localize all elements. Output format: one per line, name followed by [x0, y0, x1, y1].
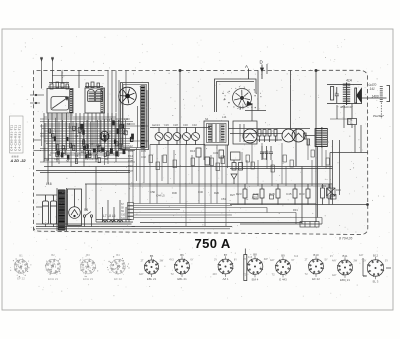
svg-text:8Y: 8Y — [234, 259, 237, 262]
svg-text:SY: SY — [324, 259, 328, 262]
loudspeaker with output transformer — [327, 85, 362, 104]
wire rf lower links — [44, 115, 116, 117]
svg-text:2T: 2T — [305, 259, 308, 262]
wire vertical bus x316 — [315, 69, 317, 222]
interstage transformer T2 — [316, 128, 322, 130]
svg-text:4×3: 4×3 — [248, 256, 253, 259]
svg-text:B1: B1 — [19, 254, 23, 258]
svg-text:B4: B4 — [116, 253, 120, 257]
wire vertical bus x290 — [290, 71, 292, 130]
wire y119 right — [330, 118, 352, 120]
wire pair y168 right — [230, 168, 333, 170]
tube socket diagram B1 — [10, 254, 31, 281]
wire pair y170 — [36, 171, 130, 173]
node A label line — [245, 64, 249, 79]
wire bottom buses — [132, 223, 323, 227]
trimmer labels — [155, 123, 197, 127]
scan speckle inside boundary — [38, 72, 366, 231]
component value labels mesh — [57, 119, 113, 161]
svg-text:4AY: 4AY — [213, 273, 218, 276]
svg-text:1400: 1400 — [372, 95, 379, 99]
tone corrector crossed box — [321, 184, 341, 201]
wire osc outputs — [245, 71, 266, 122]
svg-text:3Y: 3Y — [363, 259, 366, 262]
switch contacts above coil box 2 — [85, 82, 103, 88]
svg-text:4Y: 4Y — [330, 255, 333, 258]
grid stopper parts — [304, 133, 310, 145]
oscillator tube V3 (ECH21) — [233, 89, 253, 108]
antenna arrow 2 — [51, 57, 54, 70]
svg-text:3×4: 3×4 — [294, 255, 299, 258]
svg-text:141: 141 — [370, 87, 376, 91]
svg-text:4AY: 4AY — [332, 260, 337, 263]
svg-text:SY: SY — [385, 259, 389, 262]
wiring loom with terminal strip — [134, 204, 323, 225]
svg-text:EBC 21: EBC 21 — [340, 278, 350, 282]
extra small parts left rows — [56, 143, 122, 164]
bandfilter lower lines — [204, 121, 257, 168]
loom top components — [253, 195, 336, 200]
svg-text:B5: B5 — [150, 254, 154, 258]
schematic area tint — [34, 71, 368, 233]
svg-text:≋≋≋: ≋≋≋ — [11, 155, 19, 159]
svg-text:EL 3: EL 3 — [373, 279, 379, 283]
svg-text:4AY: 4AY — [359, 254, 364, 257]
svg-text:4AY: 4AY — [270, 259, 275, 262]
mains switch S6 — [83, 208, 92, 227]
wire top verticals right of RF — [108, 71, 126, 119]
wire pair y186 right — [130, 185, 333, 187]
chokes L7 L8 L6 — [102, 214, 123, 222]
svg-text:R12: R12 — [48, 154, 53, 157]
labels above stripe — [116, 115, 227, 128]
antenna arrow 1 — [40, 57, 43, 70]
svg-text:C4-C60-R31-T11: C4-C60-R31-T11 — [18, 125, 22, 151]
schematic dashed boundary box — [34, 70, 368, 234]
svg-text:6Y: 6Y — [190, 259, 193, 262]
svg-text:E 443: E 443 — [279, 278, 287, 282]
svg-text:750 A: 750 A — [195, 236, 231, 251]
svg-text:AZ 1: AZ 1 — [222, 277, 228, 281]
mid-section small resistors — [149, 155, 225, 171]
IF amp tube V4 and output tubes V5a V5b — [243, 129, 305, 143]
svg-text:PH2607: PH2607 — [373, 114, 384, 118]
resistors mid section — [190, 148, 224, 165]
svg-text:B3: B3 — [86, 253, 90, 257]
tube socket diagram B7 — [213, 253, 238, 281]
labels column under IF block — [128, 144, 146, 173]
extra labels left rows — [46, 143, 118, 163]
wire bus y204 right — [230, 204, 369, 206]
svg-text:3W: 3W — [264, 258, 268, 261]
socket small labels row — [248, 254, 364, 259]
wire center verticals — [133, 128, 326, 226]
wire top link over RF boxes — [52, 75, 104, 77]
wire long bus y166 — [44, 166, 333, 168]
svg-text:3Y: 3Y — [214, 259, 217, 262]
component mesh rows RF/IF decoupling — [40, 118, 148, 165]
tube socket diagram B5 — [139, 254, 164, 281]
RF coil box 2 (dual winding) — [85, 88, 105, 113]
switch contacts above coil box 1 — [48, 82, 70, 89]
terminal strip box — [300, 222, 319, 228]
svg-text:B2: B2 — [51, 253, 55, 257]
oscillator box outline — [215, 79, 257, 112]
labels AF row — [150, 190, 235, 198]
svg-text:4Y3: 4Y3 — [169, 259, 174, 262]
right-section small parts — [246, 150, 329, 172]
labels loom — [221, 196, 298, 213]
svg-text:C25: C25 — [90, 143, 95, 146]
tube socket diagram B11 — [332, 254, 358, 282]
svg-text:C19: C19 — [113, 153, 118, 156]
wire extra verticals top mid — [119, 64, 361, 166]
wire long bus y184 — [85, 183, 333, 185]
svg-text:4AY: 4AY — [332, 274, 337, 277]
svg-text:A: A — [245, 64, 248, 69]
wires crossing left dashed edge — [30, 94, 44, 150]
filter capacitors C58 C59 — [43, 195, 57, 224]
wire antenna feed — [42, 71, 80, 89]
detector diode network — [231, 152, 243, 184]
rectifier tube V6 (AZ1) — [68, 189, 82, 226]
tube socket diagram B9 — [270, 253, 295, 281]
svg-text:C25: C25 — [85, 158, 90, 161]
wire psu bus — [36, 150, 230, 229]
AF coupling components row — [236, 184, 310, 205]
tone network C49 R35 — [321, 184, 332, 205]
svg-text:EF 22: EF 22 — [312, 277, 320, 281]
RF input coil box S1 with tuning arrow — [47, 89, 73, 114]
svg-text:6Y: 6Y — [291, 259, 294, 262]
electrolytic bar at socket B8 — [244, 255, 247, 281]
socket B12 side wires — [363, 258, 391, 276]
tube socket diagram B10 — [305, 253, 328, 281]
svg-text:C28: C28 — [80, 147, 85, 150]
svg-text:ECH 21: ECH 21 — [48, 277, 59, 281]
bandfilter box — [204, 121, 229, 145]
tube socket diagram B6 — [169, 253, 194, 281]
svg-text:3W: 3W — [353, 260, 357, 263]
node D label line — [260, 60, 264, 80]
coupling capacitors C41-C43 — [260, 146, 273, 160]
tube socket diagram B3 — [80, 253, 99, 281]
wire bus y152 right — [330, 152, 368, 154]
tube socket diagram B12 — [363, 254, 388, 284]
svg-text:3W: 3W — [160, 260, 164, 263]
coupling parts between tubes — [258, 130, 277, 143]
svg-text:8 704 26: 8 704 26 — [339, 237, 352, 241]
tube socket diagram B2 — [45, 253, 61, 281]
svg-text:A 2D -32: A 2D -32 — [10, 159, 27, 163]
wire tube row interconnects — [229, 129, 316, 141]
speaker labels — [340, 79, 384, 119]
svg-text:EBL 21: EBL 21 — [177, 277, 187, 281]
svg-text:ECH 21: ECH 21 — [83, 277, 94, 281]
svg-text:EF 22: EF 22 — [114, 277, 122, 281]
svg-text:EF 22: EF 22 — [17, 277, 25, 281]
svg-text:C25: C25 — [54, 158, 59, 161]
IF transformer block with tube V2 — [121, 83, 149, 150]
svg-text:EBL 21: EBL 21 — [147, 277, 157, 281]
power transformer T1 — [59, 189, 65, 191]
wire right verticals — [302, 140, 340, 224]
trimmer capacitor row — [150, 128, 210, 146]
tube socket diagram B8 — [243, 253, 268, 282]
svg-text:2T: 2T — [141, 260, 144, 263]
left margin part-list text block — [10, 116, 27, 163]
wires RF section verticals — [43, 113, 45, 162]
resistor 138-139 — [348, 104, 357, 129]
tube socket diagram B4 — [107, 253, 130, 281]
wire vertical bus x180 — [179, 69, 181, 143]
svg-text:4AY: 4AY — [139, 273, 144, 276]
svg-text:EM 4: EM 4 — [252, 278, 259, 282]
